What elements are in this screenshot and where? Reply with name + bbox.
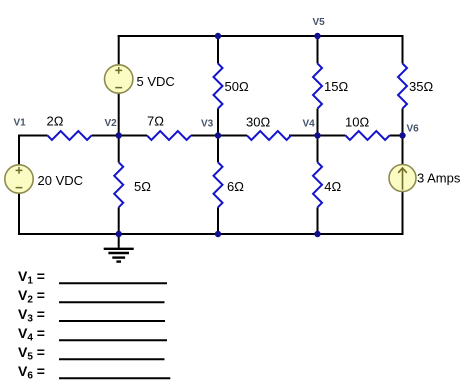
svg-text:V4: V4: [303, 119, 316, 130]
wire V4 to 4ohm lead: [317, 136, 319, 163]
svg-text:35Ω: 35Ω: [409, 79, 433, 94]
resistor 4ohm: [313, 162, 322, 207]
junction dot bottom rail below V4: [314, 231, 320, 237]
svg-text:3 Amps: 3 Amps: [417, 171, 461, 186]
resistor 2ohm: [48, 131, 92, 140]
resistor 6ohm: [214, 162, 223, 207]
svg-text:V1: V1: [14, 118, 27, 129]
svg-text:V1 =: V1 =: [18, 268, 45, 287]
answer blank line 5: [59, 358, 165, 360]
resistor 30ohm: [247, 131, 291, 140]
answer blank line 1: [59, 282, 167, 284]
svg-text:5Ω: 5Ω: [134, 179, 151, 194]
wire node V2 leads on mid rail: [92, 135, 148, 137]
svg-text:V2 =: V2 =: [18, 287, 45, 306]
wire 20VDC bottom to bottom rail: [18, 194, 20, 236]
voltage source U2 20VDC: [5, 165, 33, 193]
svg-text:V3: V3: [201, 118, 214, 129]
resistor 10ohm: [346, 131, 390, 140]
wire node V4 leads on mid rail: [289, 135, 346, 137]
wire top rail to 35ohm lead: [402, 35, 404, 64]
wire top rail to 5VDC: [118, 35, 120, 65]
resistor 5ohm: [114, 162, 123, 207]
wire V2 to 5ohm lead: [118, 136, 120, 163]
svg-text:20 VDC: 20 VDC: [38, 173, 84, 188]
svg-text:15Ω: 15Ω: [324, 79, 348, 94]
svg-text:7Ω: 7Ω: [147, 113, 164, 128]
svg-text:V6: V6: [407, 124, 420, 135]
wire 35ohm to node V6: [402, 109, 404, 136]
svg-text:30Ω: 30Ω: [246, 114, 270, 129]
svg-text:4Ω: 4Ω: [324, 179, 341, 194]
wire 5VDC to node V2: [118, 94, 120, 136]
svg-text:50Ω: 50Ω: [225, 79, 249, 94]
junction dot top rail above 50ohm: [215, 33, 221, 39]
answer blank line 6: [59, 377, 170, 379]
answer blank line 2: [59, 301, 165, 303]
wire V6 to 3A source top: [402, 136, 404, 165]
wire 15ohm to node V4: [317, 109, 319, 136]
resistor 35ohm: [398, 64, 407, 109]
wire 50ohm to node V3: [217, 109, 219, 136]
wire 5ohm to bottom rail: [118, 207, 120, 234]
answer blank line 3: [59, 320, 165, 322]
wire top rail V5: [118, 35, 404, 37]
wire 3A source bottom to bottom rail: [402, 192, 404, 236]
current source I1 3Amps: [389, 165, 416, 192]
svg-text:V5 =: V5 =: [18, 344, 45, 363]
svg-text:5 VDC: 5 VDC: [137, 74, 175, 89]
resistor 7ohm: [147, 131, 191, 140]
node V4 junction dot: [314, 132, 320, 138]
voltage source U1 5VDC: [105, 65, 133, 93]
wire node V3 leads on mid rail: [191, 135, 247, 137]
resistor 15ohm: [313, 64, 322, 109]
resistor 50ohm: [214, 64, 223, 109]
wire left branch V1 to 20VDC top: [18, 135, 48, 165]
node V5 junction dot: [314, 33, 320, 39]
svg-text:V5: V5: [313, 17, 326, 28]
node V3 junction dot: [215, 132, 221, 138]
svg-text:V3 =: V3 =: [18, 306, 45, 325]
wire 10ohm to node V6: [390, 135, 403, 137]
svg-text:V6 =: V6 =: [18, 363, 45, 382]
svg-text:2Ω: 2Ω: [47, 113, 64, 128]
svg-text:6Ω: 6Ω: [227, 179, 244, 194]
wire V3 to 6ohm lead: [217, 136, 219, 163]
wire 6ohm to bottom rail: [217, 207, 219, 234]
wire top rail to 50ohm lead: [217, 36, 219, 64]
node V6 junction dot: [399, 132, 405, 138]
svg-text:V2: V2: [105, 118, 118, 129]
node V2 junction dot: [116, 132, 122, 138]
junction dot bottom rail below V2: [116, 231, 122, 237]
svg-text:V4 =: V4 =: [18, 325, 45, 344]
answer blank line 4: [59, 339, 167, 341]
wire bottom rail: [18, 233, 404, 235]
ground: [104, 234, 134, 262]
svg-text:10Ω: 10Ω: [345, 114, 369, 129]
wire 4ohm to bottom rail: [317, 207, 319, 234]
junction dot bottom rail below V3: [215, 231, 221, 237]
wire V5 to 15ohm lead: [317, 36, 319, 64]
